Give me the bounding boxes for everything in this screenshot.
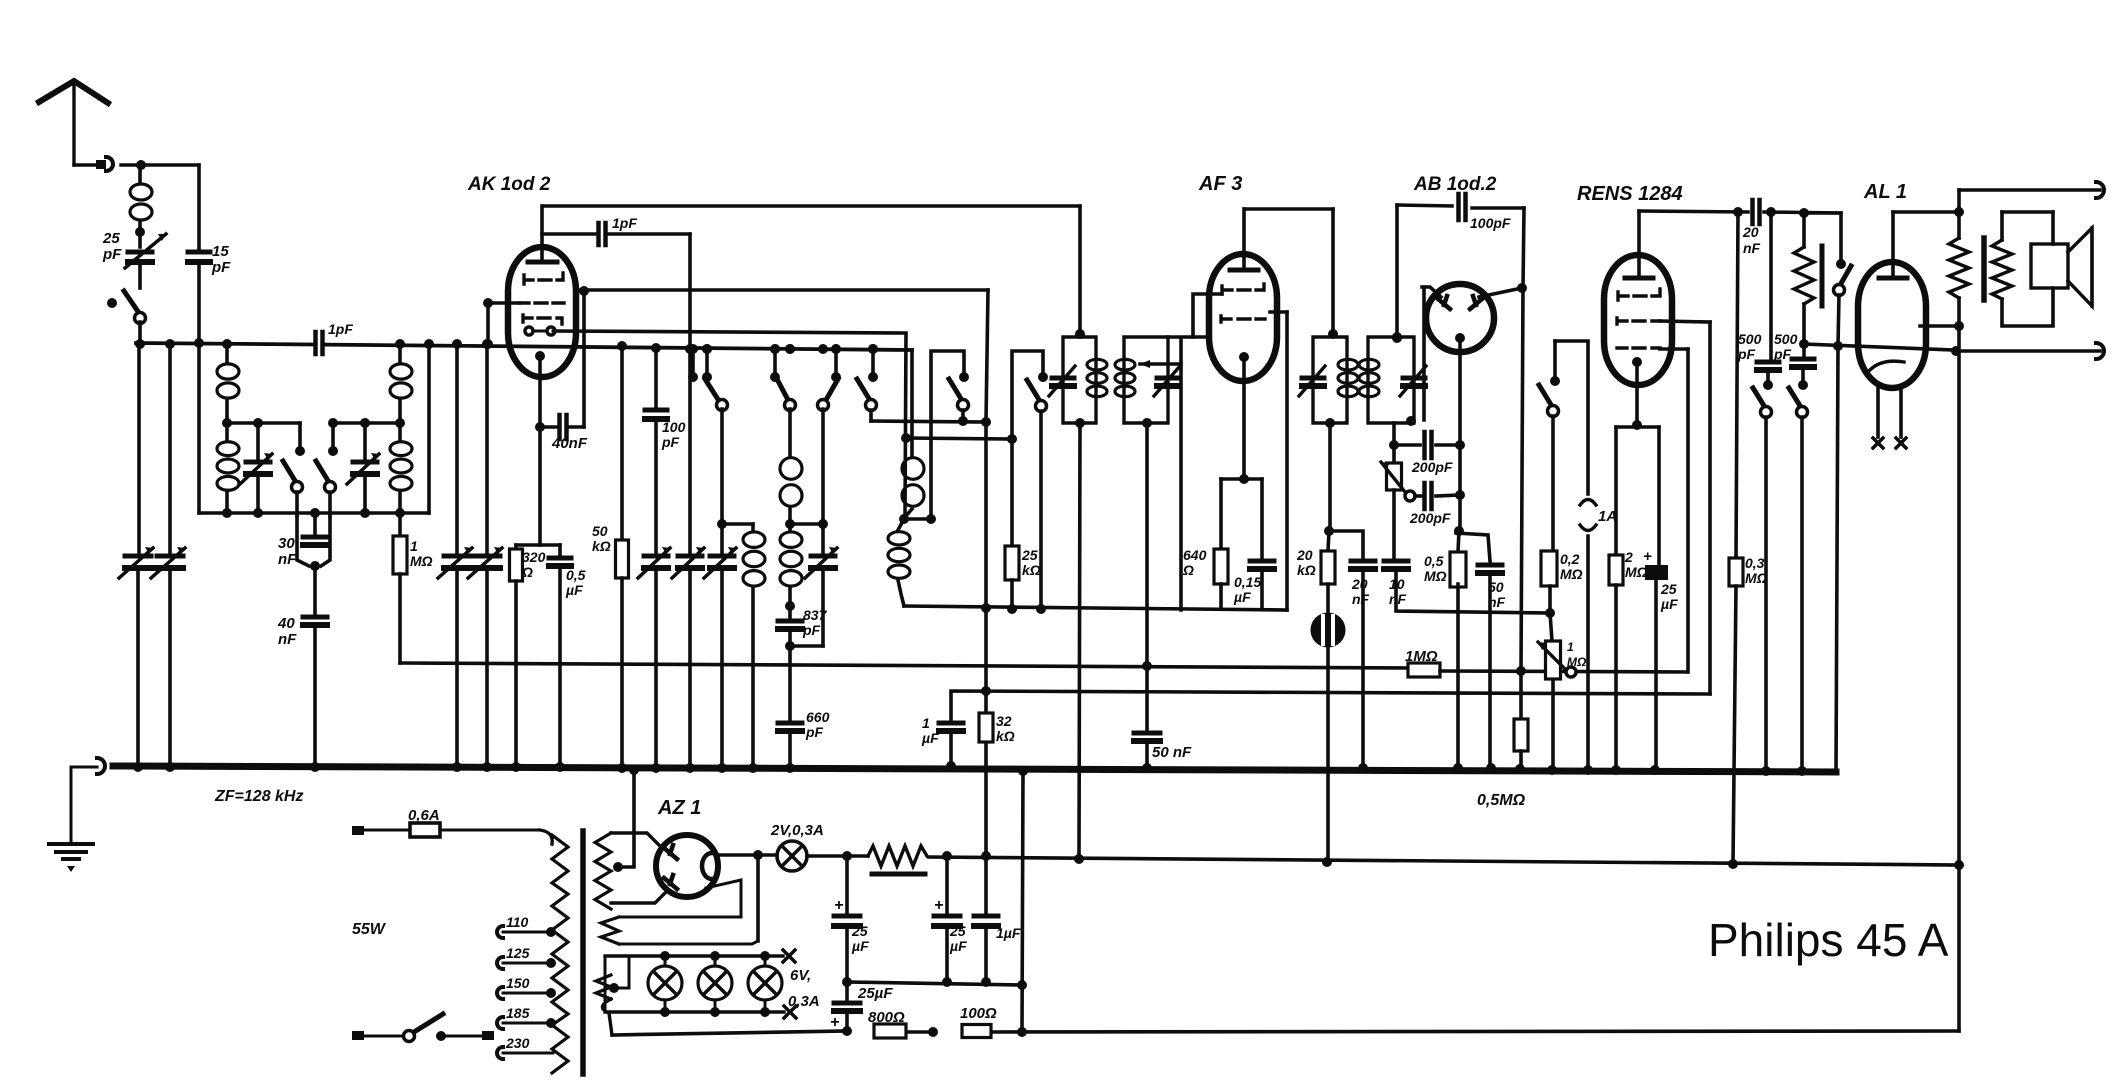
AL1 top bar [1879, 276, 1907, 281]
RENS grid3 row [1617, 346, 1660, 349]
node top x1804 [1799, 208, 1809, 218]
wire gang line x170 [168, 344, 172, 552]
capacitor 0.15uF [1250, 559, 1274, 564]
tap 185 [497, 1017, 503, 1029]
wire B+ down right [1957, 298, 1961, 326]
switch S4 [868, 372, 878, 382]
node gnd x1616 [1611, 765, 1621, 775]
resistor 320 Ohm [514, 545, 518, 549]
wire secondary bottom [2002, 288, 2053, 326]
svg-text:Philips 45 A: Philips 45 A [1708, 914, 1949, 966]
svg-text:125: 125 [506, 945, 530, 961]
RENS cathode dot [1632, 357, 1642, 367]
node switch row x963 [958, 416, 968, 426]
capacitor 500pF a [1757, 360, 1779, 365]
wire osc to cathode line [898, 580, 904, 606]
svg-text:MΩ: MΩ [1560, 566, 1583, 582]
wire AK anode line [576, 288, 988, 292]
wire to 837pF [788, 588, 792, 617]
wire AF3 anode riser [1285, 312, 1289, 610]
wire jack lower [1959, 349, 2100, 353]
node bus x690 [685, 344, 695, 354]
lamp pilot 2 [698, 966, 732, 1000]
node IF4 top [1392, 332, 1402, 342]
AL1 grid dashes [1866, 346, 1927, 348]
wire 1pF line [542, 232, 597, 236]
capacitor 50nF AB [1478, 563, 1502, 568]
wire box mid right [333, 421, 400, 425]
capacitor 1uF psu [984, 856, 988, 912]
wire center tap to bus [618, 772, 634, 867]
wire B+ filament line [717, 853, 777, 857]
AK screen wire [488, 301, 519, 305]
resistor 0.3M [1729, 558, 1743, 586]
capacitor 20nF (series in RENS top loop) [1750, 200, 1755, 224]
svg-text:0,5MΩ: 0,5MΩ [1477, 792, 1526, 809]
wire box mid left [227, 421, 300, 425]
transformer output primary [1949, 238, 1969, 298]
lamp dial indicator disc [1311, 613, 1346, 648]
node AVC x1147 [1142, 661, 1152, 671]
svg-text:Ω: Ω [1182, 562, 1194, 578]
fuse 0.6A [410, 823, 440, 837]
node gnd x457 [452, 762, 462, 772]
svg-text:25: 25 [1021, 547, 1038, 563]
svg-text:pF: pF [802, 622, 821, 638]
resistor 1MOhm (AVC series) [1408, 663, 1440, 677]
wire 50k to gnd [620, 578, 624, 768]
transformer primary [552, 835, 568, 1073]
node top x1738 [1733, 207, 1743, 217]
wire top anode line from AK1od2 loop [544, 204, 1080, 208]
antenna hook [106, 157, 113, 171]
svg-text:AZ 1: AZ 1 [657, 797, 701, 819]
node gnd x1588 [1583, 765, 1593, 775]
svg-text:0,15: 0,15 [1234, 574, 1261, 590]
resistor 50k [620, 346, 624, 540]
wire RENS cathode loop [1616, 425, 1659, 429]
node IF4 bottom [1406, 416, 1416, 426]
AB cathode dot [1455, 333, 1465, 343]
tap 110 [497, 926, 503, 938]
tap 150 [497, 987, 503, 999]
node bus x457 [452, 339, 462, 349]
wire res 40k col [1802, 213, 1806, 247]
node 200pF top [1389, 440, 1399, 450]
wire x1838 to bus end [1836, 346, 1838, 772]
node bus x656 [651, 343, 661, 353]
wire left box bottom [199, 511, 429, 514]
wire RENS top stub [1637, 211, 1641, 277]
svg-text:40nF: 40nF [551, 435, 588, 452]
wire oscillator lower line [906, 438, 1013, 439]
capacitor 40nF AK cathode [540, 425, 556, 429]
lamp rail top [605, 954, 783, 957]
svg-text:150: 150 [506, 975, 530, 991]
svg-text:0,5: 0,5 [1424, 553, 1444, 569]
wire 10nF link [1396, 569, 1550, 613]
AK top cap bar [528, 260, 557, 265]
resistor 25k [1005, 546, 1019, 580]
wire AB loop left [1395, 205, 1399, 336]
svg-text:AB 1od.2: AB 1od.2 [1413, 174, 1497, 195]
switch S3 stub [831, 344, 841, 354]
node gnd x1766 [1761, 766, 1771, 776]
switch hum b [1801, 367, 1805, 383]
node switch row x986 [981, 417, 991, 427]
wire 20nF col [1736, 212, 1738, 558]
resistor 800 Ohm [874, 1024, 906, 1038]
IF transformer 4 [1368, 337, 1414, 423]
coil osc top wire [910, 350, 914, 455]
wire to pickup jack upper [1959, 188, 2100, 192]
node 837 bottom [785, 641, 795, 651]
wire AL1 grid line [1804, 344, 1953, 350]
wire antenna node [121, 163, 199, 166]
capacitor 1pF AK [596, 223, 601, 245]
wire pot to bus [1551, 679, 1555, 770]
wire top line corner x1080 [1078, 206, 1082, 336]
svg-text:kΩ: kΩ [1022, 562, 1041, 578]
wire pad1 to gnd [654, 568, 658, 768]
svg-text:kΩ: kΩ [1297, 562, 1316, 578]
coil osc lower [888, 532, 910, 545]
node box bottom 30nF [310, 508, 320, 518]
wire AZ1 filament lead2 [643, 880, 741, 917]
coil mid a lower [780, 532, 802, 547]
svg-text:pF: pF [1773, 346, 1792, 362]
node AL1 grid line end [1951, 346, 1961, 356]
svg-text:MΩ: MΩ [1567, 655, 1587, 669]
wire AK top stub [540, 206, 544, 261]
coil left box lower [217, 442, 239, 456]
wire x487 lower [485, 568, 489, 767]
node cap return x986 [981, 977, 991, 987]
coil antenna [138, 165, 142, 182]
wire AF3 cathode loop [1221, 477, 1262, 481]
node heater x1736 [1728, 859, 1738, 869]
node gnd x622 [617, 763, 627, 773]
wire AB right lead [1479, 288, 1522, 297]
node AB c3 [1454, 526, 1464, 536]
variable capacitor C-gang 1 [125, 554, 151, 559]
svg-text:µF: µF [921, 730, 939, 746]
transformer 6V winding [596, 975, 611, 999]
node IF1 top [1075, 329, 1085, 339]
node tank mid right [395, 418, 405, 428]
AK osc electrodes [525, 327, 533, 335]
IF transformer 2 [1124, 337, 1168, 423]
wire AB1od2 top loop right [1472, 206, 1524, 210]
wire RENS cathode down [1635, 362, 1639, 425]
svg-text:500: 500 [1774, 331, 1798, 347]
switch antenna [107, 298, 117, 308]
wire 1uF down [984, 926, 988, 982]
capacitor 20nF det [1351, 559, 1375, 564]
svg-text:1pF: 1pF [612, 215, 637, 231]
wire trim col low [821, 568, 825, 646]
wire AF3 top loop [1245, 207, 1333, 211]
svg-text:+: + [934, 897, 943, 914]
AZ1 filament [702, 853, 712, 879]
coil IF a [751, 524, 755, 530]
switch S1 [705, 379, 719, 401]
capacitor 25uF a [845, 856, 849, 912]
svg-text:1MΩ: 1MΩ [1405, 648, 1438, 665]
AB anode marks [1438, 296, 1450, 309]
wire AVC line right [1440, 671, 1687, 672]
node gnd x170 [165, 762, 175, 772]
capacitor 500pF b [1802, 344, 1806, 355]
svg-text:+: + [1643, 548, 1652, 565]
wire lamp rail left [604, 956, 607, 1012]
coil left box upper [225, 344, 229, 362]
wire det branch right [1329, 531, 1363, 557]
switch S2 [777, 379, 788, 400]
capacitor 40nF shunt [303, 615, 327, 620]
node gnd x1656 [1650, 765, 1660, 775]
tube AZ1 [656, 835, 718, 897]
wire PSU bottom line [612, 1031, 846, 1035]
node bus dots mid [702, 344, 712, 354]
wire x457 lower [455, 568, 459, 767]
wire 660 to gnd [788, 731, 792, 768]
wire IF3 drop [1328, 423, 1332, 531]
node gnd x1521 [1515, 764, 1525, 774]
svg-text:0,6A: 0,6A [408, 807, 440, 824]
lamp 2V 0.3A [777, 841, 807, 871]
node gnd x1802 [1797, 766, 1807, 776]
wire 0.2M to pot [1548, 586, 1552, 613]
AF3 grid2 row [1221, 316, 1265, 322]
transformer core [580, 831, 586, 1074]
svg-text:32: 32 [996, 713, 1012, 729]
wire S1 tap to coil [722, 522, 753, 526]
node 40nF junction [535, 422, 545, 432]
capacitor 10nF [1384, 559, 1408, 564]
node bus AK left [483, 339, 493, 349]
wire secondary top [2000, 212, 2004, 240]
node gnd x656 [651, 763, 661, 773]
AK screen row [519, 301, 564, 304]
resistor 0.5M [1458, 531, 1459, 552]
variable capacitor pad2 [678, 554, 702, 559]
svg-text:kΩ: kΩ [592, 538, 611, 554]
wire 40k to grid line [1802, 304, 1806, 344]
capacitor 25uF cathode [1645, 565, 1668, 580]
node gnd x1458 [1453, 763, 1463, 773]
wire AB left lead [1422, 287, 1441, 297]
node antenna coil bottom [135, 227, 145, 237]
speaker cone [2068, 228, 2092, 306]
resistor 640 Ohm [1214, 549, 1228, 584]
wire 40nF to ground bus [313, 625, 317, 767]
svg-text:nF: nF [1743, 240, 1761, 256]
transformer output secondary [1992, 240, 2012, 299]
svg-text:320: 320 [522, 549, 546, 565]
svg-text:800Ω: 800Ω [868, 1009, 905, 1026]
wire AL1 top wire [1893, 210, 1959, 214]
svg-text:+: + [834, 897, 843, 914]
RENS top bar [1625, 276, 1653, 281]
capacitor 25pF trimmer [128, 250, 152, 255]
svg-text:kΩ: kΩ [996, 728, 1015, 744]
wire B+ riser [984, 421, 988, 856]
svg-text:pF: pF [1737, 346, 1756, 362]
node osc lower [1007, 434, 1017, 444]
node anode x1959 [1954, 321, 1964, 331]
variable capacitor pad1 [644, 554, 668, 559]
variable capacitor left tank 2 [363, 423, 367, 458]
lamp rail bottom [605, 1010, 784, 1013]
wire heater riser x1078 [1079, 423, 1080, 859]
switch wave left [298, 423, 302, 449]
node AK anode line [579, 286, 589, 296]
wire x457 upper [455, 344, 459, 552]
wire 0.15 to tank line [1260, 569, 1264, 609]
node IF1 bottom [1075, 418, 1085, 428]
wire S1 down [720, 409, 724, 552]
wire IF2 coil arrow [1140, 362, 1181, 366]
variable capacitor gang4 [474, 554, 500, 559]
capacitor 30nF [313, 514, 317, 533]
svg-text:µF: µF [851, 938, 869, 954]
svg-text:1: 1 [1567, 640, 1574, 654]
switch wave right [331, 423, 335, 449]
node gnd x1553 [1547, 765, 1557, 775]
wire 0.5M to bus [1456, 584, 1460, 768]
wire speaker loop top [2002, 210, 2053, 214]
wire AF3 grid drop [1179, 338, 1183, 610]
transformer output core [1981, 238, 1987, 300]
wire B+ drop x758 [756, 855, 760, 941]
node HV center tap [613, 862, 623, 872]
node gnd x516 [511, 762, 521, 772]
jack hook lower [2096, 343, 2104, 359]
wire 320 to gnd [514, 581, 518, 767]
wire ground-bus drop to cap return [1022, 772, 1023, 1032]
svg-text:AK 1od 2: AK 1od 2 [467, 174, 551, 195]
svg-text:20: 20 [1351, 576, 1368, 592]
svg-text:+: + [830, 1014, 839, 1031]
wire n loop [1555, 341, 1588, 494]
wire fuse to primary [440, 829, 540, 832]
wire 25uF b down [945, 926, 949, 982]
node gnd x138 [133, 762, 143, 772]
main grid bus [136, 343, 312, 345]
svg-text:185: 185 [506, 1005, 530, 1021]
wire 25uF to bus [1654, 580, 1658, 770]
svg-text:pF: pF [102, 246, 122, 263]
node cap return x947 [942, 977, 952, 987]
capacitor 1pF bus series [313, 332, 318, 354]
wire AVC riser to RENS grid3 [1686, 349, 1690, 672]
wire 0.5uF to gnd [558, 566, 562, 767]
resistor 2M [1609, 555, 1623, 585]
svg-text:100pF: 100pF [1470, 215, 1511, 231]
wire 2M to bus [1614, 585, 1618, 770]
resistor 1M AVC feed [398, 513, 402, 536]
wire 30nF to 40nF [313, 566, 317, 613]
wire gang1 to ground [136, 568, 140, 767]
switch output sw [1804, 213, 1841, 262]
svg-text:15: 15 [212, 243, 229, 260]
capacitor 25uF c [845, 982, 849, 999]
AK grid1 [524, 273, 563, 284]
wire screen line [951, 691, 1710, 723]
svg-text:0,5: 0,5 [566, 567, 586, 583]
svg-text:0,3: 0,3 [1745, 555, 1765, 571]
wire IF4 drop [1392, 423, 1396, 445]
node AB c1 [1455, 440, 1465, 450]
IF transformer 1 [1063, 337, 1096, 423]
AF3 grid row [1222, 284, 1264, 294]
lamp pilot 1 [648, 966, 682, 1000]
AK cathode dot [535, 351, 545, 361]
wire RENS1284 top loop left [1639, 211, 1748, 212]
svg-text:1pF: 1pF [328, 321, 353, 337]
AK grid3 row [523, 315, 562, 324]
wire osc mid [905, 509, 912, 517]
resistor 3.2k [979, 713, 993, 742]
wire AF3 top stub [1242, 209, 1246, 269]
svg-text:1: 1 [410, 538, 418, 554]
resistor 40k tap [1794, 247, 1814, 304]
lamp pilot 3 [748, 966, 782, 1000]
switch S5 n-loop [931, 351, 964, 519]
AL1 heater legs [1876, 388, 1880, 437]
node heater x1327 [1322, 857, 1332, 867]
wire switch b to bus [1800, 417, 1804, 771]
node gnd x722 [717, 763, 727, 773]
svg-text:40: 40 [277, 615, 295, 632]
potentiometer IF reg [1392, 445, 1396, 463]
node gnd x1147 [1142, 763, 1152, 773]
node bus AF3 area [1142, 418, 1152, 428]
jack hook upper [2096, 182, 2104, 198]
switch S1 stubs [688, 344, 698, 354]
svg-text:25: 25 [851, 923, 868, 939]
wire secondary loop right [2051, 212, 2055, 244]
node tank2 top [785, 519, 795, 529]
potentiometer volume [1546, 641, 1561, 679]
wire 50nF to gnd [1145, 741, 1149, 768]
node grid line x1804 [1799, 339, 1809, 349]
coil mid a upper [780, 458, 802, 480]
wire cap return line [847, 982, 1022, 985]
wire 25k feed [1010, 439, 1014, 546]
node IF3 top [1328, 329, 1338, 339]
wire x487 upper [485, 344, 489, 552]
wire cathode split [538, 427, 542, 545]
wire AL1 top stub [1891, 212, 1895, 277]
tube AL1 [1858, 262, 1926, 388]
wire RENS grid2 out [1660, 321, 1710, 322]
resistor ballast (mains dropper) [868, 846, 927, 866]
svg-text:1µF: 1µF [996, 925, 1021, 941]
node bus x622 [617, 341, 627, 351]
resistor 100 Ohm [962, 1025, 991, 1038]
tap 230 [497, 1047, 503, 1059]
switch S2 stub [770, 344, 780, 354]
wire S2 down [788, 409, 792, 455]
wire AK cathode down [538, 356, 542, 427]
svg-text:RENS 1284: RENS 1284 [1577, 183, 1683, 205]
wire 25uF c down [845, 1011, 849, 1031]
resistor 0.2M [1541, 551, 1557, 586]
variable capacitor gang3 [444, 554, 470, 559]
capacitor 100pF (series in AB top loop) [1456, 194, 1461, 220]
